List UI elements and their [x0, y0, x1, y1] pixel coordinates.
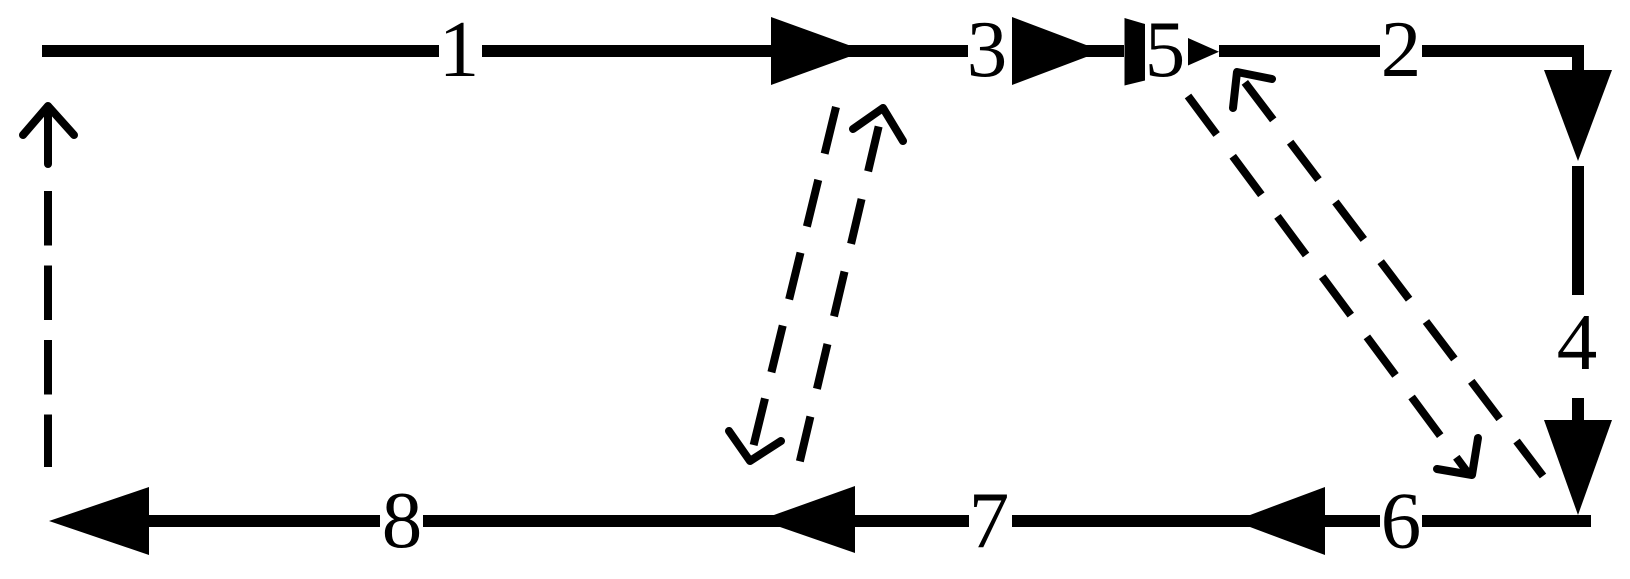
wire top segment between 3 and bar [1012, 45, 1124, 57]
svg-text:6: 6 [1381, 476, 1422, 566]
dashed line right pair right (up arrow) [1237, 72, 1543, 476]
chevron up at top of left feedback line [23, 106, 74, 135]
dashed line right pair left (down arrow) [1188, 96, 1468, 473]
chevron up-left at top of right pair [1233, 72, 1272, 108]
dashed line middle pair right (up arrow) [799, 108, 883, 465]
dashed line middle pair left (down arrow) [750, 107, 836, 460]
chevron down at bottom of middle pair [729, 431, 781, 461]
wire top segment between 5 and 2 [1219, 45, 1380, 57]
svg-text:2: 2 [1381, 4, 1422, 94]
arrowhead down lower right [1544, 420, 1612, 515]
svg-text:8: 8 [382, 475, 423, 565]
arrowhead right large after 3 [1012, 17, 1102, 85]
arrowhead right large between 1 and 3 [771, 17, 865, 85]
chevron up at top of middle pair [853, 108, 903, 141]
wire top segment between 1 and 3 [482, 45, 968, 57]
bar marker before 5 [1125, 18, 1146, 86]
arrowhead left between 7 and 8 [760, 486, 855, 553]
arrowhead left before 6 [1234, 487, 1325, 555]
svg-text:5: 5 [1145, 4, 1186, 94]
wire top segment left of label 1 [42, 45, 439, 57]
wire bottom segment between 8 and 7 [423, 515, 969, 527]
arrowhead right small after 5 [1188, 38, 1219, 66]
svg-text:7: 7 [969, 476, 1010, 566]
svg-text:1: 1 [439, 4, 480, 94]
solid stub of left feedback arrow [44, 109, 52, 164]
wire bottom segment left of 8 [145, 515, 380, 527]
arrowhead down upper right [1544, 70, 1612, 161]
chevron down-right at bottom of right pair [1437, 438, 1478, 475]
svg-text:3: 3 [967, 4, 1008, 94]
wire right vertical lower segment [1572, 398, 1584, 422]
dashed vertical feedback line at left [44, 191, 52, 467]
wire bottom segment between 7 and 6 [1012, 515, 1380, 527]
arrowhead left at bottom left end [49, 487, 149, 555]
wire right vertical upper segment [1572, 45, 1584, 70]
svg-text:4: 4 [1557, 297, 1598, 387]
wire bottom segment right of 6 [1422, 515, 1591, 527]
wire top segment right of 2 to corner [1422, 45, 1584, 57]
